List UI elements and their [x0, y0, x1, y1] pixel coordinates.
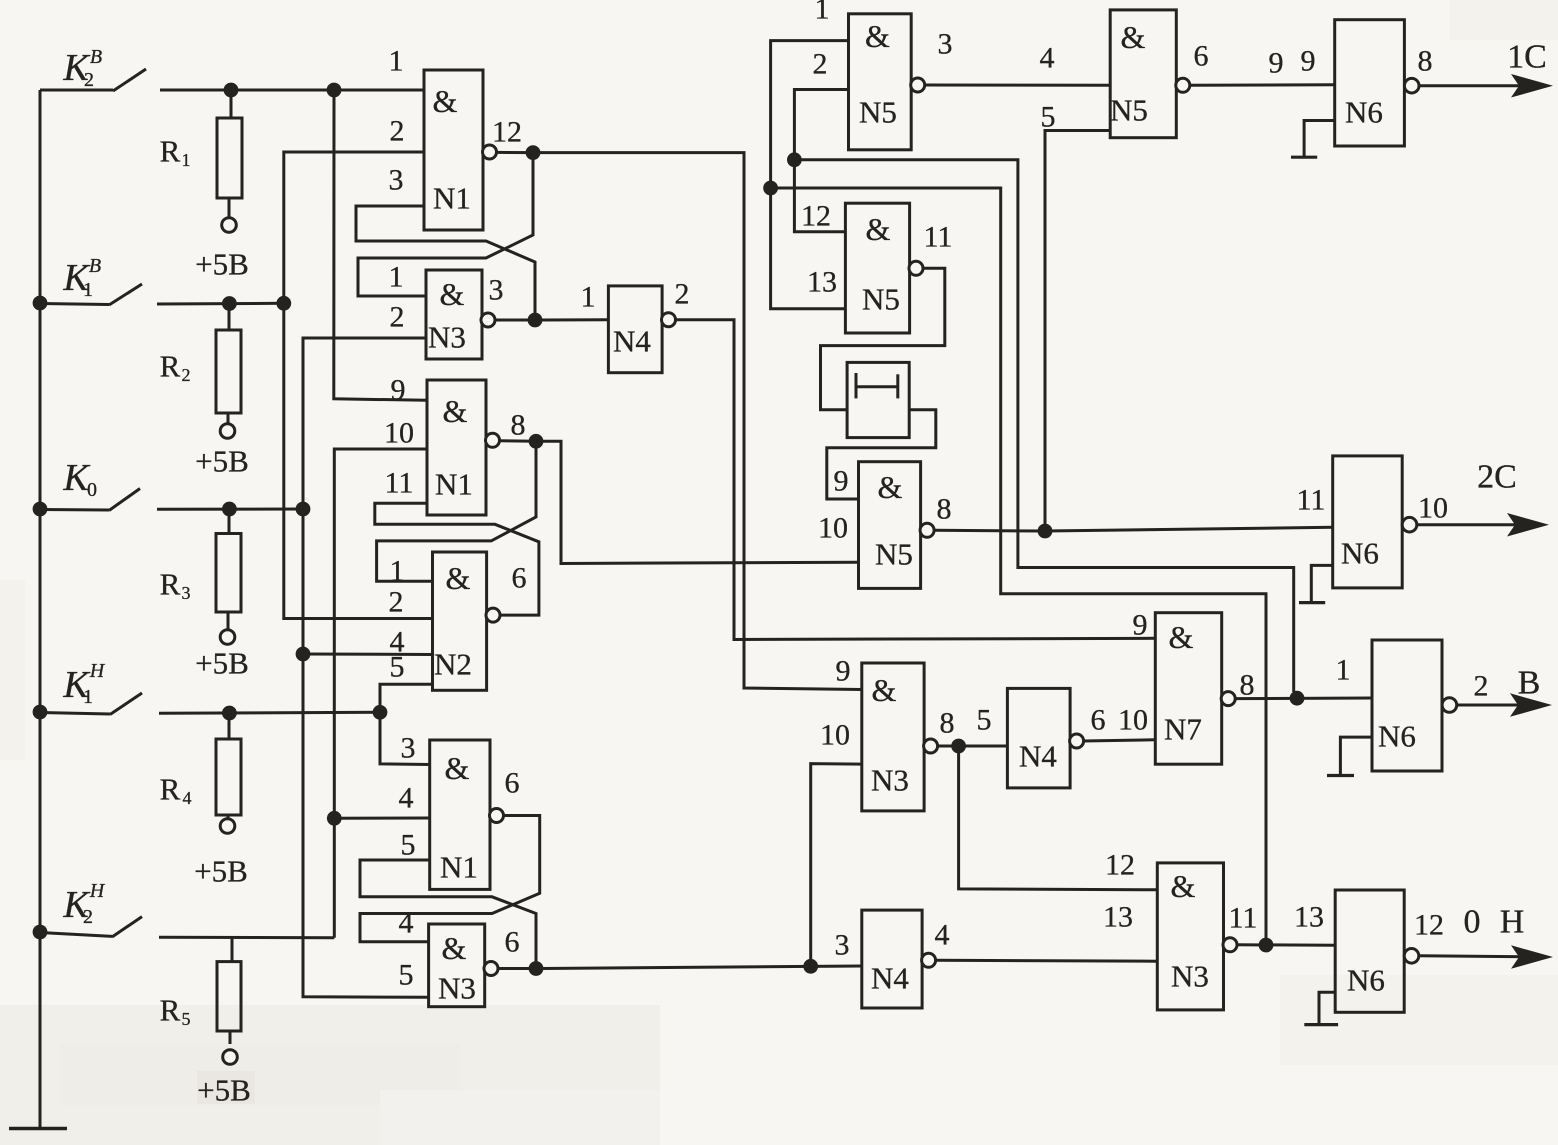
svg-text:10: 10: [384, 416, 414, 449]
inverter N4 (pin 1 in, 2 out): [608, 286, 662, 373]
svg-text:B: B: [89, 255, 101, 277]
terminal R4 +5B circle: [220, 819, 235, 834]
svg-text:B: B: [1518, 665, 1541, 702]
nand gate N5 fourth (pins 9,10 out 8): [859, 462, 921, 589]
highlight behind +5B (R5): [197, 1071, 255, 1104]
ground at N6d: [1319, 992, 1335, 1024]
svg-text:N5: N5: [859, 95, 897, 130]
node N1a output junction: [526, 145, 541, 160]
svg-text:1C: 1C: [1507, 39, 1547, 76]
svg-text:8: 8: [1418, 44, 1433, 77]
terminal R2 +5B circle: [220, 424, 235, 439]
wire N4b out to N7.10: [1083, 740, 1155, 741]
svg-text:9: 9: [834, 464, 849, 497]
svg-text:&: &: [1169, 619, 1194, 655]
svg-text:N5: N5: [1110, 93, 1148, 128]
pin bubble N3c out 8: [924, 739, 938, 753]
wire N4a.2 to N7.9: [675, 320, 1155, 640]
wire K1H row: [159, 712, 380, 713]
svg-text:+5B: +5B: [194, 854, 248, 889]
wire N5b out to N6a.9: [1189, 83, 1334, 87]
buffer N6 (0H output, pin 13 in, 12 out): [1335, 890, 1404, 1012]
svg-text:1: 1: [389, 260, 404, 293]
switch K2B blade: [113, 69, 146, 91]
wire N1a.12 to N3c.9: [539, 153, 862, 690]
switch K2B wire from bus: [40, 89, 113, 92]
node K0-R3 junction: [222, 502, 237, 517]
svg-text:1: 1: [83, 686, 93, 708]
nand gate N5 (pins 1,2 out 3): [849, 14, 912, 150]
svg-text:N5: N5: [862, 282, 900, 317]
svg-text:12: 12: [801, 199, 831, 232]
svg-text:11: 11: [1229, 901, 1258, 934]
wire K2B column to N1b.9: [334, 90, 427, 400]
pin bubble N3d out 11: [1223, 938, 1237, 952]
svg-text:&: &: [866, 211, 891, 247]
svg-text:2: 2: [84, 69, 94, 91]
switch K1B blade: [109, 284, 142, 305]
svg-text:5: 5: [399, 958, 414, 991]
node K1B bus junction: [33, 296, 48, 311]
wire N7 out feedback to N5a.2 net: [794, 160, 1293, 692]
resistor R1: [230, 90, 233, 118]
nand gate N2 (pins 1,2,4,5 out 6): [433, 552, 487, 690]
node K0 column junction: [296, 502, 311, 517]
svg-text:2: 2: [182, 365, 191, 385]
node K1H bus junction: [33, 705, 48, 720]
wire junction up to N3c.10: [811, 764, 862, 967]
svg-text:3: 3: [835, 928, 850, 961]
wire B output arrow: [1457, 704, 1545, 707]
nand gate N3 (pins 9,10 out 8): [862, 663, 924, 811]
svg-text:2: 2: [675, 277, 690, 310]
svg-text:R: R: [160, 567, 181, 602]
wire K2H row: [159, 936, 334, 939]
nand gate N1 (pins 3,4,5 out 6): [430, 740, 490, 889]
pin bubble N4c out 4: [922, 953, 936, 967]
svg-text:N3: N3: [428, 320, 466, 355]
svg-text:8: 8: [1240, 668, 1255, 701]
svg-text:5: 5: [1041, 100, 1056, 133]
svg-text:+5B: +5B: [195, 646, 249, 681]
svg-text:1: 1: [182, 150, 191, 170]
wire N3a.3 to N1a.3 (cross): [356, 206, 535, 314]
wire N1a out to junction: [496, 151, 533, 154]
node N5d out to N5b.5 junction: [1038, 524, 1053, 539]
node N1b output junction: [529, 434, 544, 449]
svg-text:&: &: [443, 393, 468, 429]
pin bubble N6d out 12: [1404, 949, 1419, 964]
wire K0 row: [157, 508, 303, 511]
svg-text:&: &: [872, 672, 897, 708]
pin bubble N1c out 6: [490, 809, 504, 823]
wire N5c.11 to H-box left: [821, 268, 945, 410]
wire N4c out to N3d.13: [935, 959, 1157, 963]
svg-text:4: 4: [935, 918, 950, 951]
resistor R3: [228, 509, 231, 534]
node K1B column junction: [276, 296, 291, 311]
svg-text:&: &: [1171, 868, 1196, 904]
wire N3c out junction to N3d.12: [959, 746, 1158, 890]
component H-box: [847, 362, 909, 437]
svg-text:3: 3: [401, 731, 416, 764]
svg-text:&: &: [878, 469, 903, 505]
node K1B-R2 junction: [222, 296, 237, 311]
svg-text:&: &: [433, 83, 458, 119]
wire N3b.6 to N1c.5 (cross): [360, 860, 536, 962]
svg-text:N3: N3: [1171, 959, 1209, 994]
svg-text:9: 9: [836, 654, 851, 687]
pin bubble N4a out: [662, 313, 676, 327]
svg-text:0: 0: [87, 479, 97, 501]
nand gate N5 second (pins 4,5 out 6): [1110, 10, 1176, 138]
wire N5b.5 column: [1045, 131, 1110, 532]
resistor R5: [231, 938, 234, 962]
svg-text:N7: N7: [1164, 712, 1202, 747]
wire N1c pin4 stub: [334, 817, 429, 820]
svg-text:5: 5: [401, 828, 416, 861]
wire K1B row: [157, 302, 284, 306]
svg-text:N4: N4: [1019, 739, 1057, 774]
svg-text:&: &: [445, 750, 470, 786]
resistor R2: [228, 304, 231, 330]
wire N1b.8 to N2.1 (cross): [377, 447, 536, 581]
pin bubble N1b out 8: [486, 433, 500, 447]
svg-text:H: H: [1500, 904, 1525, 941]
svg-text:4: 4: [183, 788, 192, 808]
node K1H column junction: [373, 705, 388, 720]
svg-text:1: 1: [815, 0, 830, 25]
ground at N6c: [1340, 737, 1372, 775]
svg-text:N3: N3: [871, 763, 909, 798]
pin bubble N3b out 6: [484, 962, 498, 976]
svg-text:N4: N4: [871, 961, 909, 996]
svg-text:8: 8: [940, 706, 955, 739]
resistor R4: [228, 713, 231, 739]
svg-text:2: 2: [1474, 669, 1489, 702]
svg-text:9: 9: [1133, 608, 1148, 641]
wire H-box right to N5d.9: [827, 410, 936, 499]
svg-text:13: 13: [1103, 900, 1133, 933]
svg-text:B: B: [90, 46, 102, 68]
svg-text:5: 5: [182, 1009, 191, 1029]
svg-text:6: 6: [1091, 703, 1106, 736]
ground at N6a: [1304, 121, 1335, 158]
nand gate N1 (pins 1,2,3 out 12): [424, 70, 483, 230]
svg-text:N1: N1: [435, 467, 473, 502]
node N3a output junction: [528, 313, 543, 328]
svg-text:1: 1: [581, 280, 596, 313]
node K2H bus junction: [33, 925, 48, 940]
nand gate N3 fourth (pins 12,13 out 11): [1157, 863, 1223, 1010]
svg-text:9: 9: [391, 373, 406, 406]
wire N5a.1 / N5c.13 net: [771, 41, 849, 309]
wire N2 pin4 stub: [303, 653, 433, 657]
svg-text:12: 12: [492, 115, 522, 148]
svg-text:11: 11: [385, 466, 414, 499]
switch K2H blade: [112, 917, 142, 937]
pin bubble N3a out 3: [481, 313, 495, 327]
svg-text:1: 1: [83, 279, 93, 301]
svg-text:13: 13: [1294, 900, 1324, 933]
svg-text:N6: N6: [1341, 536, 1379, 571]
svg-text:9: 9: [1269, 46, 1284, 79]
svg-text:N2: N2: [434, 647, 472, 682]
svg-text:&: &: [865, 18, 890, 54]
nand gate N7 (pins 9,10 out 8): [1155, 613, 1221, 765]
svg-text:3: 3: [182, 583, 191, 603]
svg-text:R: R: [160, 993, 181, 1028]
svg-text:1: 1: [389, 44, 404, 77]
wire N3d out to N6d.13 (0H): [1237, 943, 1336, 946]
wire N5d out to N6b.11 (2C): [934, 527, 1333, 531]
pin bubble N6a out 8: [1404, 78, 1419, 93]
node K2B bus junction: [327, 83, 342, 98]
svg-text:N6: N6: [1378, 719, 1416, 754]
svg-text:12: 12: [1105, 848, 1135, 881]
svg-text:2: 2: [389, 585, 404, 618]
pin bubble N5c out 11: [909, 261, 923, 275]
wire 1C output arrow: [1419, 84, 1546, 87]
node N3b output junction: [529, 961, 544, 976]
svg-text:N6: N6: [1345, 95, 1383, 130]
svg-text:&: &: [446, 560, 471, 596]
pin bubble N7 out 8: [1221, 692, 1235, 706]
svg-text:8: 8: [937, 492, 952, 525]
nand gate N3 (pins 4,5 out 6): [429, 924, 485, 1007]
wire N3d out feedback to N5a.1 net: [771, 188, 1266, 939]
svg-text:H: H: [89, 880, 106, 902]
switch K0 wire from bus: [40, 508, 109, 512]
svg-text:6: 6: [512, 561, 527, 594]
svg-text:3: 3: [489, 273, 504, 306]
svg-text:N6: N6: [1347, 963, 1385, 998]
ground: [9, 1127, 67, 1130]
svg-text:11: 11: [924, 220, 953, 253]
svg-text:12: 12: [1414, 908, 1444, 941]
wire N1a.12 to N3a.1 (cross): [358, 158, 533, 296]
node N5a.1 net junction: [763, 181, 778, 196]
svg-text:N1: N1: [433, 181, 471, 216]
svg-text:2: 2: [390, 114, 405, 147]
svg-text:5: 5: [977, 703, 992, 736]
pin bubble N1a out 12: [483, 145, 497, 159]
wire 0H output arrow: [1419, 956, 1546, 957]
node latch3 out to N3c.10 junction: [803, 959, 818, 974]
svg-text:10: 10: [1118, 703, 1148, 736]
svg-text:N1: N1: [440, 850, 478, 885]
svg-text:+5B: +5B: [197, 1073, 251, 1108]
svg-text:H: H: [89, 660, 106, 682]
nand gate N3 (pins 1,2 out 3): [426, 270, 482, 359]
terminal R3 +5B circle: [220, 630, 235, 645]
svg-text:2: 2: [83, 906, 93, 928]
svg-text:10: 10: [818, 511, 848, 544]
svg-text:9: 9: [1301, 44, 1316, 77]
switch K1B wire from bus: [40, 304, 109, 305]
switch K1H wire from bus: [40, 713, 110, 715]
svg-text:&: &: [440, 276, 465, 312]
node K1H-R4 junction: [222, 706, 237, 721]
pin bubble N5d out 8: [920, 523, 934, 537]
svg-text:10: 10: [1418, 491, 1448, 524]
pin bubble N6c out 2: [1442, 698, 1457, 713]
wire N1b.8 to N5d.10: [542, 441, 859, 563]
svg-text:4: 4: [399, 781, 414, 814]
buffer N6 (1C output, pin 9 in, 8 out): [1335, 20, 1405, 146]
wire K1H to N2.5: [380, 684, 433, 712]
svg-text:1: 1: [1336, 653, 1351, 686]
pin bubble N5a out 3: [911, 78, 925, 92]
wire N5a.2 / N5c.12 net: [794, 90, 848, 232]
wire K1B column (N1a.2 / N2.2): [284, 152, 433, 619]
svg-text:8: 8: [511, 408, 526, 441]
wire N2 out up to cross: [375, 503, 539, 615]
wire left vertical bus: [39, 90, 42, 1129]
ground at N6b: [1311, 565, 1332, 602]
svg-text:11: 11: [1297, 483, 1326, 516]
svg-text:+5B: +5B: [195, 444, 249, 479]
nand gate N1 (pins 9,10,11 out 8): [427, 380, 486, 515]
switch K1H blade: [110, 693, 142, 715]
svg-text:4: 4: [1040, 41, 1055, 74]
node K0 bus junction: [33, 502, 48, 517]
svg-text:R: R: [160, 134, 181, 169]
node K2H column to N1c.4 junction: [327, 811, 342, 826]
svg-text:2C: 2C: [1477, 459, 1517, 496]
svg-text:+5B: +5B: [195, 247, 249, 282]
svg-text:4: 4: [399, 906, 414, 939]
node N3c out junction: [951, 739, 966, 754]
svg-text:R: R: [160, 772, 181, 807]
svg-text:N3: N3: [438, 971, 476, 1006]
wire N3c out to N4b.5: [937, 745, 1007, 748]
node N5a.2 net junction: [787, 152, 802, 167]
wire N1b.10 / K2H column: [334, 449, 427, 938]
svg-text:R: R: [160, 349, 181, 384]
svg-text:6: 6: [505, 766, 520, 799]
svg-text:3: 3: [389, 163, 404, 196]
wire N7 out to N6c.1 (B): [1235, 697, 1372, 701]
svg-text:13: 13: [807, 265, 837, 298]
switch K2H wire from bus: [40, 933, 112, 937]
wire N3b.6 to N4c.3: [542, 966, 862, 969]
inverter N4 second (pin 5 in, 6 out): [1007, 688, 1070, 788]
buffer N6 (2C output, pin 11 in, 10 out): [1333, 456, 1403, 588]
svg-text:&: &: [442, 930, 467, 966]
wire K1H to N1c.3: [380, 712, 430, 764]
pin bubble N5b out 6: [1176, 78, 1190, 92]
wire N3a out to junction: [495, 319, 536, 322]
wire N3b out to junction: [498, 967, 537, 970]
wire N1b out to junction: [499, 439, 536, 443]
node K0 column to N2.4 junction: [296, 647, 311, 662]
svg-text:10: 10: [820, 718, 850, 751]
svg-text:2: 2: [390, 300, 405, 333]
wire N3a out to N4a in: [541, 318, 608, 321]
node K2B-R1 junction: [224, 83, 239, 98]
wire K2B row to N1 pin1: [160, 89, 424, 92]
svg-text:N4: N4: [613, 324, 651, 359]
svg-text:6: 6: [505, 925, 520, 958]
H symbol inside box: [855, 373, 858, 398]
svg-text:0: 0: [1464, 904, 1481, 941]
svg-text:3: 3: [938, 27, 953, 60]
node N3d out junction: [1259, 938, 1274, 953]
pin bubble N2 out 6: [486, 608, 500, 622]
wire N1c out to cross to N3b.4: [360, 816, 540, 942]
wire N5a out to N5b.4: [924, 84, 1110, 87]
node N7 out / B junction: [1290, 691, 1305, 706]
terminal R5 +5B circle: [223, 1050, 238, 1065]
svg-text:6: 6: [1194, 39, 1209, 72]
terminal R1 +5B circle: [222, 218, 237, 233]
svg-text:&: &: [1121, 19, 1146, 55]
wire 2C output arrow: [1417, 523, 1542, 526]
pin bubble N4b out 6: [1070, 734, 1084, 748]
nand gate N5 third (pins 12,13 out 11): [845, 203, 909, 333]
buffer N6 (B output, pin 1 in, 2 out): [1372, 640, 1442, 771]
wire N3a.2 / K0 column (N2.4, N3b.5): [303, 338, 429, 997]
svg-text:N5: N5: [875, 537, 913, 572]
inverter N4 third (pin 3 in, 4 out): [862, 910, 922, 1008]
svg-text:2: 2: [813, 47, 828, 80]
pin bubble N6b out 10: [1402, 517, 1417, 532]
switch K0 blade: [109, 489, 140, 511]
